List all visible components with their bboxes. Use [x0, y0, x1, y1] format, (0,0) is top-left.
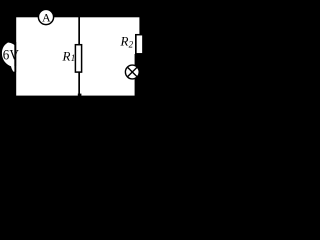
svg-text:6V: 6V — [3, 47, 19, 63]
wire right upper (top corner to R2) — [139, 15, 141, 35]
white sliver along wire below 6V — [11, 66, 16, 72]
wire right lower (R2 to lamp to bottom corner) — [135, 54, 137, 97]
ammeter A1 circle — [38, 9, 53, 24]
lamp X diagonal 1 — [127, 67, 137, 77]
wire R1 branch upper — [78, 16, 80, 45]
circuit interior white area upper-right sliver — [16, 17, 140, 34]
svg-text:R: R — [120, 33, 129, 48]
background (outside of circuit, dark) — [0, 0, 155, 102]
wire left — [14, 15, 16, 97]
circuit interior white main area — [16, 17, 135, 96]
lamp L1 circle — [125, 65, 139, 79]
6V label white patch — [2, 43, 16, 67]
svg-text:2: 2 — [129, 40, 134, 50]
svg-text:1: 1 — [71, 53, 76, 63]
svg-text:A: A — [42, 10, 51, 24]
resistor R2 box — [136, 35, 143, 54]
resistor R1 box — [75, 45, 81, 72]
lamp X diagonal 2 — [127, 67, 137, 77]
junction blob at bottom wire — [78, 94, 82, 97]
wire bottom — [15, 96, 137, 98]
wire top — [15, 15, 142, 17]
svg-text:R: R — [62, 48, 71, 63]
wire left segment visible at 6V patch — [14, 42, 16, 72]
wire R1 branch lower — [78, 72, 80, 96]
